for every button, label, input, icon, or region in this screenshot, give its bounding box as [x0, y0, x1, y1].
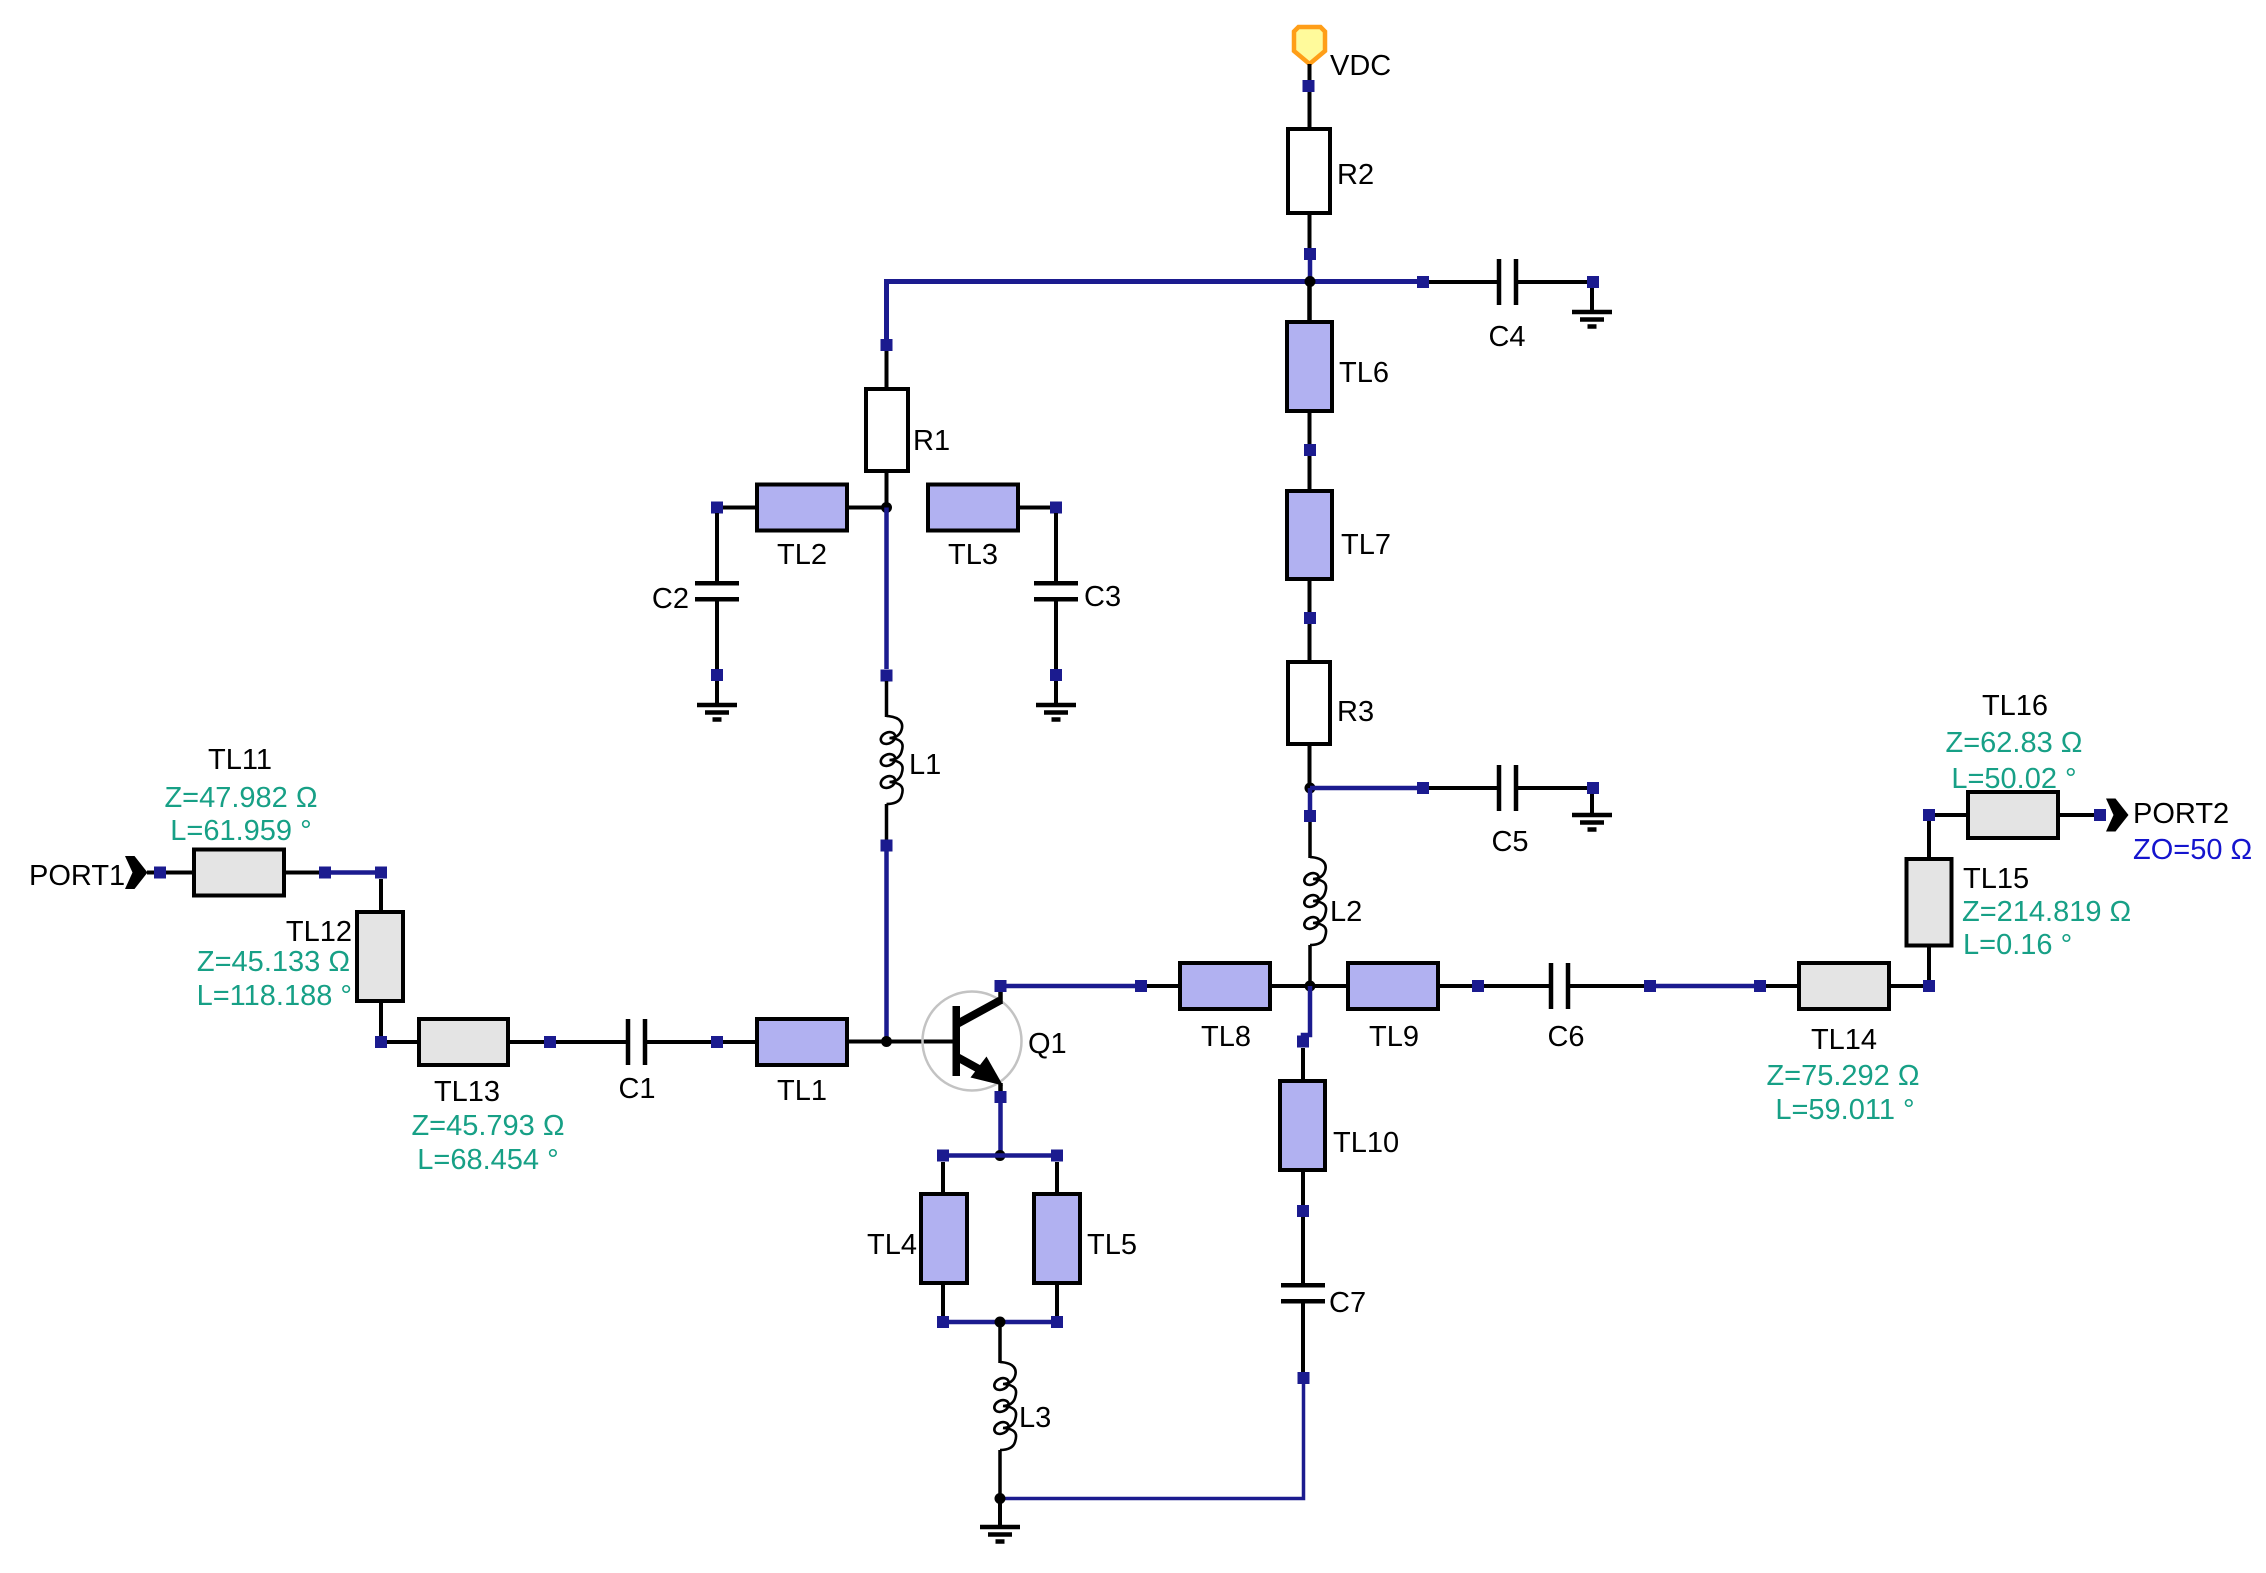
resistor R3	[1288, 662, 1330, 788]
port PORT2	[2106, 799, 2129, 832]
value TL16 Z	[1946, 727, 2083, 759]
svg-text:L=0.16 °: L=0.16 °	[1963, 929, 2072, 961]
svg-text:TL3: TL3	[948, 539, 998, 571]
wire TL2 down to C2	[715, 513, 719, 581]
junction base bias node	[881, 502, 892, 513]
svg-text:Z=214.819 Ω: Z=214.819 Ω	[1962, 896, 2131, 928]
svg-text:TL1: TL1	[777, 1075, 827, 1107]
wire TL12 to TL13	[387, 1040, 419, 1044]
svg-text:Z=45.133 Ω: Z=45.133 Ω	[197, 946, 350, 978]
label TL13	[434, 1076, 500, 1108]
ground at C3	[1036, 681, 1076, 720]
svg-text:C5: C5	[1491, 826, 1528, 858]
value PORT2 ZO	[2133, 834, 2252, 866]
label TL1	[777, 1075, 827, 1107]
label TL5	[1087, 1229, 1137, 1261]
value TL12 L	[197, 980, 352, 1012]
svg-text:ZO=50 Ω: ZO=50 Ω	[2133, 834, 2252, 866]
wire VDC to R2	[1308, 92, 1312, 129]
transmission line TL16	[1935, 792, 2106, 838]
svg-text:R3: R3	[1337, 696, 1374, 728]
label PORT1	[29, 860, 125, 892]
label C1	[618, 1073, 655, 1105]
svg-text:R1: R1	[913, 425, 950, 457]
wire bias net horizontal (node VC)	[887, 279, 1418, 284]
svg-text:TL5: TL5	[1087, 1229, 1137, 1261]
wire TL3 down to C3	[1054, 513, 1058, 581]
svg-text:PORT2: PORT2	[2133, 798, 2229, 830]
svg-text:C7: C7	[1329, 1287, 1366, 1319]
transmission line TL12	[357, 912, 403, 1048]
svg-text:L2: L2	[1330, 896, 1362, 928]
svg-text:TL2: TL2	[777, 539, 827, 571]
port PORT1	[125, 856, 194, 889]
value TL11 L	[170, 815, 311, 847]
svg-text:PORT1: PORT1	[29, 860, 125, 892]
wire C1 to TL1	[723, 1040, 757, 1044]
svg-text:L=50.02 °: L=50.02 °	[1951, 763, 2076, 795]
capacitor C4	[1417, 259, 1599, 305]
transistor Q1	[923, 980, 1022, 1103]
transmission line TL5	[1034, 1162, 1080, 1316]
label TL4	[867, 1229, 917, 1261]
capacitor C1	[556, 1019, 723, 1065]
label TL6	[1339, 357, 1389, 389]
wire collector to TL8	[1006, 980, 1180, 992]
value TL14 L	[1775, 1094, 1914, 1126]
value TL12 Z	[197, 946, 350, 978]
capacitor C5	[1417, 765, 1599, 811]
label VDC	[1330, 50, 1391, 82]
label TL16	[1982, 690, 2048, 722]
svg-text:TL14: TL14	[1811, 1024, 1877, 1056]
value TL11 Z	[164, 782, 317, 814]
ground at C4	[1572, 288, 1612, 327]
svg-text:TL8: TL8	[1201, 1021, 1251, 1053]
label TL2	[777, 539, 827, 571]
svg-text:TL6: TL6	[1339, 357, 1389, 389]
transmission line TL2	[711, 485, 847, 531]
junction collector bias node	[1305, 783, 1316, 794]
wire TL7 to R3	[1308, 624, 1312, 662]
junction output node	[1305, 981, 1316, 992]
transmission line TL3	[928, 485, 1062, 531]
resistor R1	[866, 389, 908, 508]
inductor L1	[879, 681, 903, 852]
label R2	[1337, 159, 1374, 191]
ground at L3	[980, 1499, 1020, 1542]
svg-text:C3: C3	[1084, 581, 1121, 613]
label C7	[1329, 1287, 1366, 1319]
wire TL6 to TL7	[1308, 456, 1312, 491]
wire corner up to TL15	[1927, 946, 1931, 981]
svg-text:L=59.011 °: L=59.011 °	[1775, 1094, 1914, 1126]
transmission line TL14	[1799, 963, 1935, 1009]
label TL15	[1963, 863, 2029, 895]
wire TL1 to Q1 base	[847, 1040, 953, 1044]
svg-text:R2: R2	[1337, 159, 1374, 191]
ground at C2	[697, 681, 737, 720]
wire R2 to bias node	[1308, 260, 1313, 282]
wire TL2 to node	[847, 506, 887, 510]
label R1	[913, 425, 950, 457]
wire bias net down-left leg to R1	[881, 279, 893, 351]
wire node to C5	[1310, 786, 1417, 791]
transmission line TL7	[1287, 491, 1332, 624]
wire to R1	[885, 351, 889, 389]
svg-text:L=68.454 °: L=68.454 °	[417, 1144, 558, 1176]
wire C6 to TL14	[1656, 980, 1799, 992]
svg-text:Z=75.292 Ω: Z=75.292 Ω	[1766, 1060, 1919, 1092]
transmission line TL13	[419, 1019, 556, 1065]
transmission line TL10	[1280, 1048, 1325, 1217]
svg-text:TL9: TL9	[1369, 1021, 1419, 1053]
svg-text:VDC: VDC	[1330, 50, 1391, 82]
label C2	[652, 583, 689, 615]
label C3	[1084, 581, 1121, 613]
svg-text:Q1: Q1	[1028, 1028, 1067, 1060]
label C6	[1547, 1021, 1584, 1053]
svg-text:TL12: TL12	[286, 916, 352, 948]
svg-text:TL10: TL10	[1333, 1127, 1399, 1159]
transmission line TL6	[1287, 322, 1332, 456]
svg-text:TL7: TL7	[1341, 529, 1391, 561]
transmission line TL15	[1907, 809, 1952, 946]
label TL11	[208, 744, 272, 776]
svg-text:TL13: TL13	[434, 1076, 500, 1108]
ground at C5	[1572, 794, 1612, 830]
transmission line TL11	[194, 850, 331, 896]
wire node to L2	[1304, 788, 1316, 822]
svg-text:Z=47.982 Ω: Z=47.982 Ω	[164, 782, 317, 814]
svg-text:Z=45.793 Ω: Z=45.793 Ω	[411, 1110, 564, 1142]
wire bottom of TL4 TL5	[937, 1316, 1063, 1328]
value TL16 L	[1951, 763, 2076, 795]
label R3	[1337, 696, 1374, 728]
svg-text:TL4: TL4	[867, 1229, 917, 1261]
wire L1 to base node	[884, 851, 889, 1042]
transmission line TL8	[1180, 963, 1310, 1009]
wire emitter to TL4/TL5	[998, 1103, 1003, 1156]
wire node down to TL10	[1297, 986, 1310, 1048]
label L1	[909, 749, 941, 781]
label PORT2	[2133, 798, 2229, 830]
svg-text:C1: C1	[618, 1073, 655, 1105]
label TL8	[1201, 1021, 1251, 1053]
capacitor C3	[1034, 583, 1078, 681]
label TL14	[1811, 1024, 1877, 1056]
svg-text:C2: C2	[652, 583, 689, 615]
value TL15 L	[1963, 929, 2072, 961]
junction base node	[881, 1036, 892, 1047]
label Q1	[1028, 1028, 1067, 1060]
junction bottom node	[995, 1317, 1006, 1328]
transmission line TL9	[1310, 963, 1484, 1009]
power symbol VDC	[1294, 27, 1325, 92]
transmission line TL4	[921, 1162, 967, 1316]
svg-text:TL16: TL16	[1982, 690, 2048, 722]
wire corner down to TL12	[379, 879, 383, 912]
svg-text:TL15: TL15	[1963, 863, 2029, 895]
svg-text:TL11: TL11	[208, 744, 272, 776]
junction ground node	[995, 1493, 1006, 1504]
svg-text:L3: L3	[1019, 1402, 1051, 1434]
svg-text:L=118.188 °: L=118.188 °	[197, 980, 352, 1012]
svg-text:Z=62.83 Ω: Z=62.83 Ω	[1946, 727, 2083, 759]
label L3	[1019, 1402, 1051, 1434]
resistor R2	[1288, 129, 1330, 260]
label TL3	[948, 539, 998, 571]
label TL12	[286, 916, 352, 948]
value TL13 L	[417, 1144, 558, 1176]
capacitor C7	[1281, 1217, 1325, 1384]
label TL10	[1333, 1127, 1399, 1159]
transmission line TL1	[757, 1019, 847, 1065]
label TL9	[1369, 1021, 1419, 1053]
label C5	[1491, 826, 1528, 858]
junction emitter node	[995, 1150, 1006, 1161]
capacitor C6	[1484, 963, 1656, 1009]
wire TL11 to TL12	[331, 867, 387, 879]
wire node to TL6	[1307, 282, 1312, 323]
label L2	[1330, 896, 1362, 928]
label TL7	[1341, 529, 1391, 561]
svg-text:L=61.959 °: L=61.959 °	[170, 815, 311, 847]
value TL15 Z	[1962, 896, 2131, 928]
junction bias node	[1305, 276, 1316, 287]
svg-text:L1: L1	[909, 749, 941, 781]
wire C7 to ground return	[1000, 1384, 1304, 1499]
wire node down to L1	[881, 508, 893, 682]
inductor L2	[1302, 822, 1326, 986]
value TL14 Z	[1766, 1060, 1919, 1092]
inductor L3	[992, 1322, 1016, 1499]
wire top of TL4 TL5	[937, 1150, 1063, 1162]
svg-text:C6: C6	[1547, 1021, 1584, 1053]
value TL13 Z	[411, 1110, 564, 1142]
capacitor C2	[695, 583, 739, 681]
label C4	[1488, 321, 1525, 353]
svg-text:C4: C4	[1488, 321, 1525, 353]
